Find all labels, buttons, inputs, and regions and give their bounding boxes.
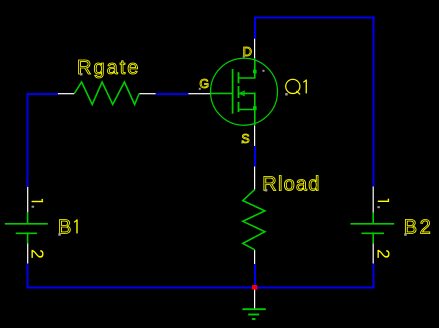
- svg-text:B2: B2: [404, 217, 433, 239]
- wire source to Rload: [254, 146, 256, 167]
- battery B1: [5, 212, 48, 243]
- svg-text:Rgate: Rgate: [77, 57, 140, 79]
- pin lead Q1 source: [254, 126, 255, 147]
- anchor mark Rload: [265, 189, 268, 192]
- Q1 drain pin dot: [253, 70, 257, 74]
- Q1 gate lead inside: [211, 92, 233, 94]
- pin lead Rload bottom: [254, 250, 255, 264]
- B1 positive plate: [5, 223, 48, 225]
- resistor Rload: [243, 190, 265, 250]
- pin lead B1 pin2: [27, 244, 28, 264]
- wire bottom rail: [27, 286, 375, 288]
- Q1 gate bar: [232, 69, 234, 114]
- wire left vertical to B1: [27, 93, 29, 187]
- wire top rail drain to B2: [254, 17, 375, 19]
- anchor mark D: [243, 56, 245, 58]
- pin lead ground: [254, 290, 255, 309]
- wire gate horizontal left segment: [27, 93, 59, 95]
- node junction dot at ground: [252, 285, 257, 290]
- pin lead Q1 gate: [188, 93, 210, 94]
- B1 negative plate: [16, 232, 37, 234]
- svg-text:G: G: [199, 77, 209, 91]
- pin lead Rload top: [254, 167, 255, 190]
- anchor mark S: [241, 142, 243, 144]
- anchor mark Rgate: [80, 73, 83, 76]
- wire Rload bottom to ground node: [254, 264, 256, 288]
- Q1 body line with arrow: [240, 93, 255, 109]
- label Q1: [286, 79, 300, 93]
- Q1 body circle: [211, 58, 278, 125]
- anchor mark B1 pin1: [32, 206, 34, 208]
- svg-text:Rload: Rload: [262, 174, 320, 196]
- anchor mark G: [199, 88, 201, 90]
- B1 bottom stub: [27, 234, 29, 244]
- pin lead B2 pin2: [373, 244, 374, 264]
- transistor Q1 MOSFET: [211, 58, 278, 125]
- Q1 drain stub: [239, 58, 255, 78]
- Q1 channel segment middle: [238, 86, 240, 98]
- B1 pin number 1: [32, 201, 43, 202]
- Q1 channel segment bottom: [238, 102, 240, 112]
- Q1 source stub: [239, 110, 255, 126]
- pin lead B1 pin1: [27, 187, 28, 213]
- svg-text:2: 2: [374, 249, 394, 259]
- resistor Rgate: [74, 82, 139, 105]
- pin lead Q1 drain: [254, 39, 255, 59]
- anchor mark Q1 label: [285, 93, 288, 96]
- Q1 body arrow: [239, 91, 244, 95]
- B2 negative plate: [362, 232, 385, 234]
- wire B1 bottom to bottom rail: [27, 264, 29, 289]
- wire drain vertical to top rail: [254, 17, 256, 39]
- pin lead Rgate right: [139, 93, 155, 94]
- B2 positive plate: [350, 223, 394, 225]
- wire gate horizontal right segment: [156, 93, 189, 95]
- wire B2 bottom to bottom rail: [373, 264, 375, 289]
- B2 pin number 1: [378, 201, 389, 202]
- Q1 channel segment top: [238, 72, 240, 83]
- Q1 source pin dot: [253, 106, 257, 110]
- battery B2: [350, 212, 394, 243]
- pin lead B2 pin1: [373, 187, 374, 213]
- B2 bottom stub: [372, 234, 374, 244]
- ground symbol: [242, 309, 265, 319]
- Q1 anchor mark: [263, 70, 265, 72]
- pin lead Rgate left: [58, 93, 74, 94]
- B2 top stub: [372, 212, 374, 223]
- anchor mark B2 label: [404, 233, 407, 236]
- anchor mark B1 label: [58, 233, 61, 236]
- B1 top stub: [27, 212, 29, 223]
- wire right vertical to B2: [373, 17, 375, 187]
- svg-text:S: S: [241, 132, 249, 146]
- svg-text:2: 2: [28, 249, 48, 259]
- anchor mark B2 pin1: [377, 206, 380, 208]
